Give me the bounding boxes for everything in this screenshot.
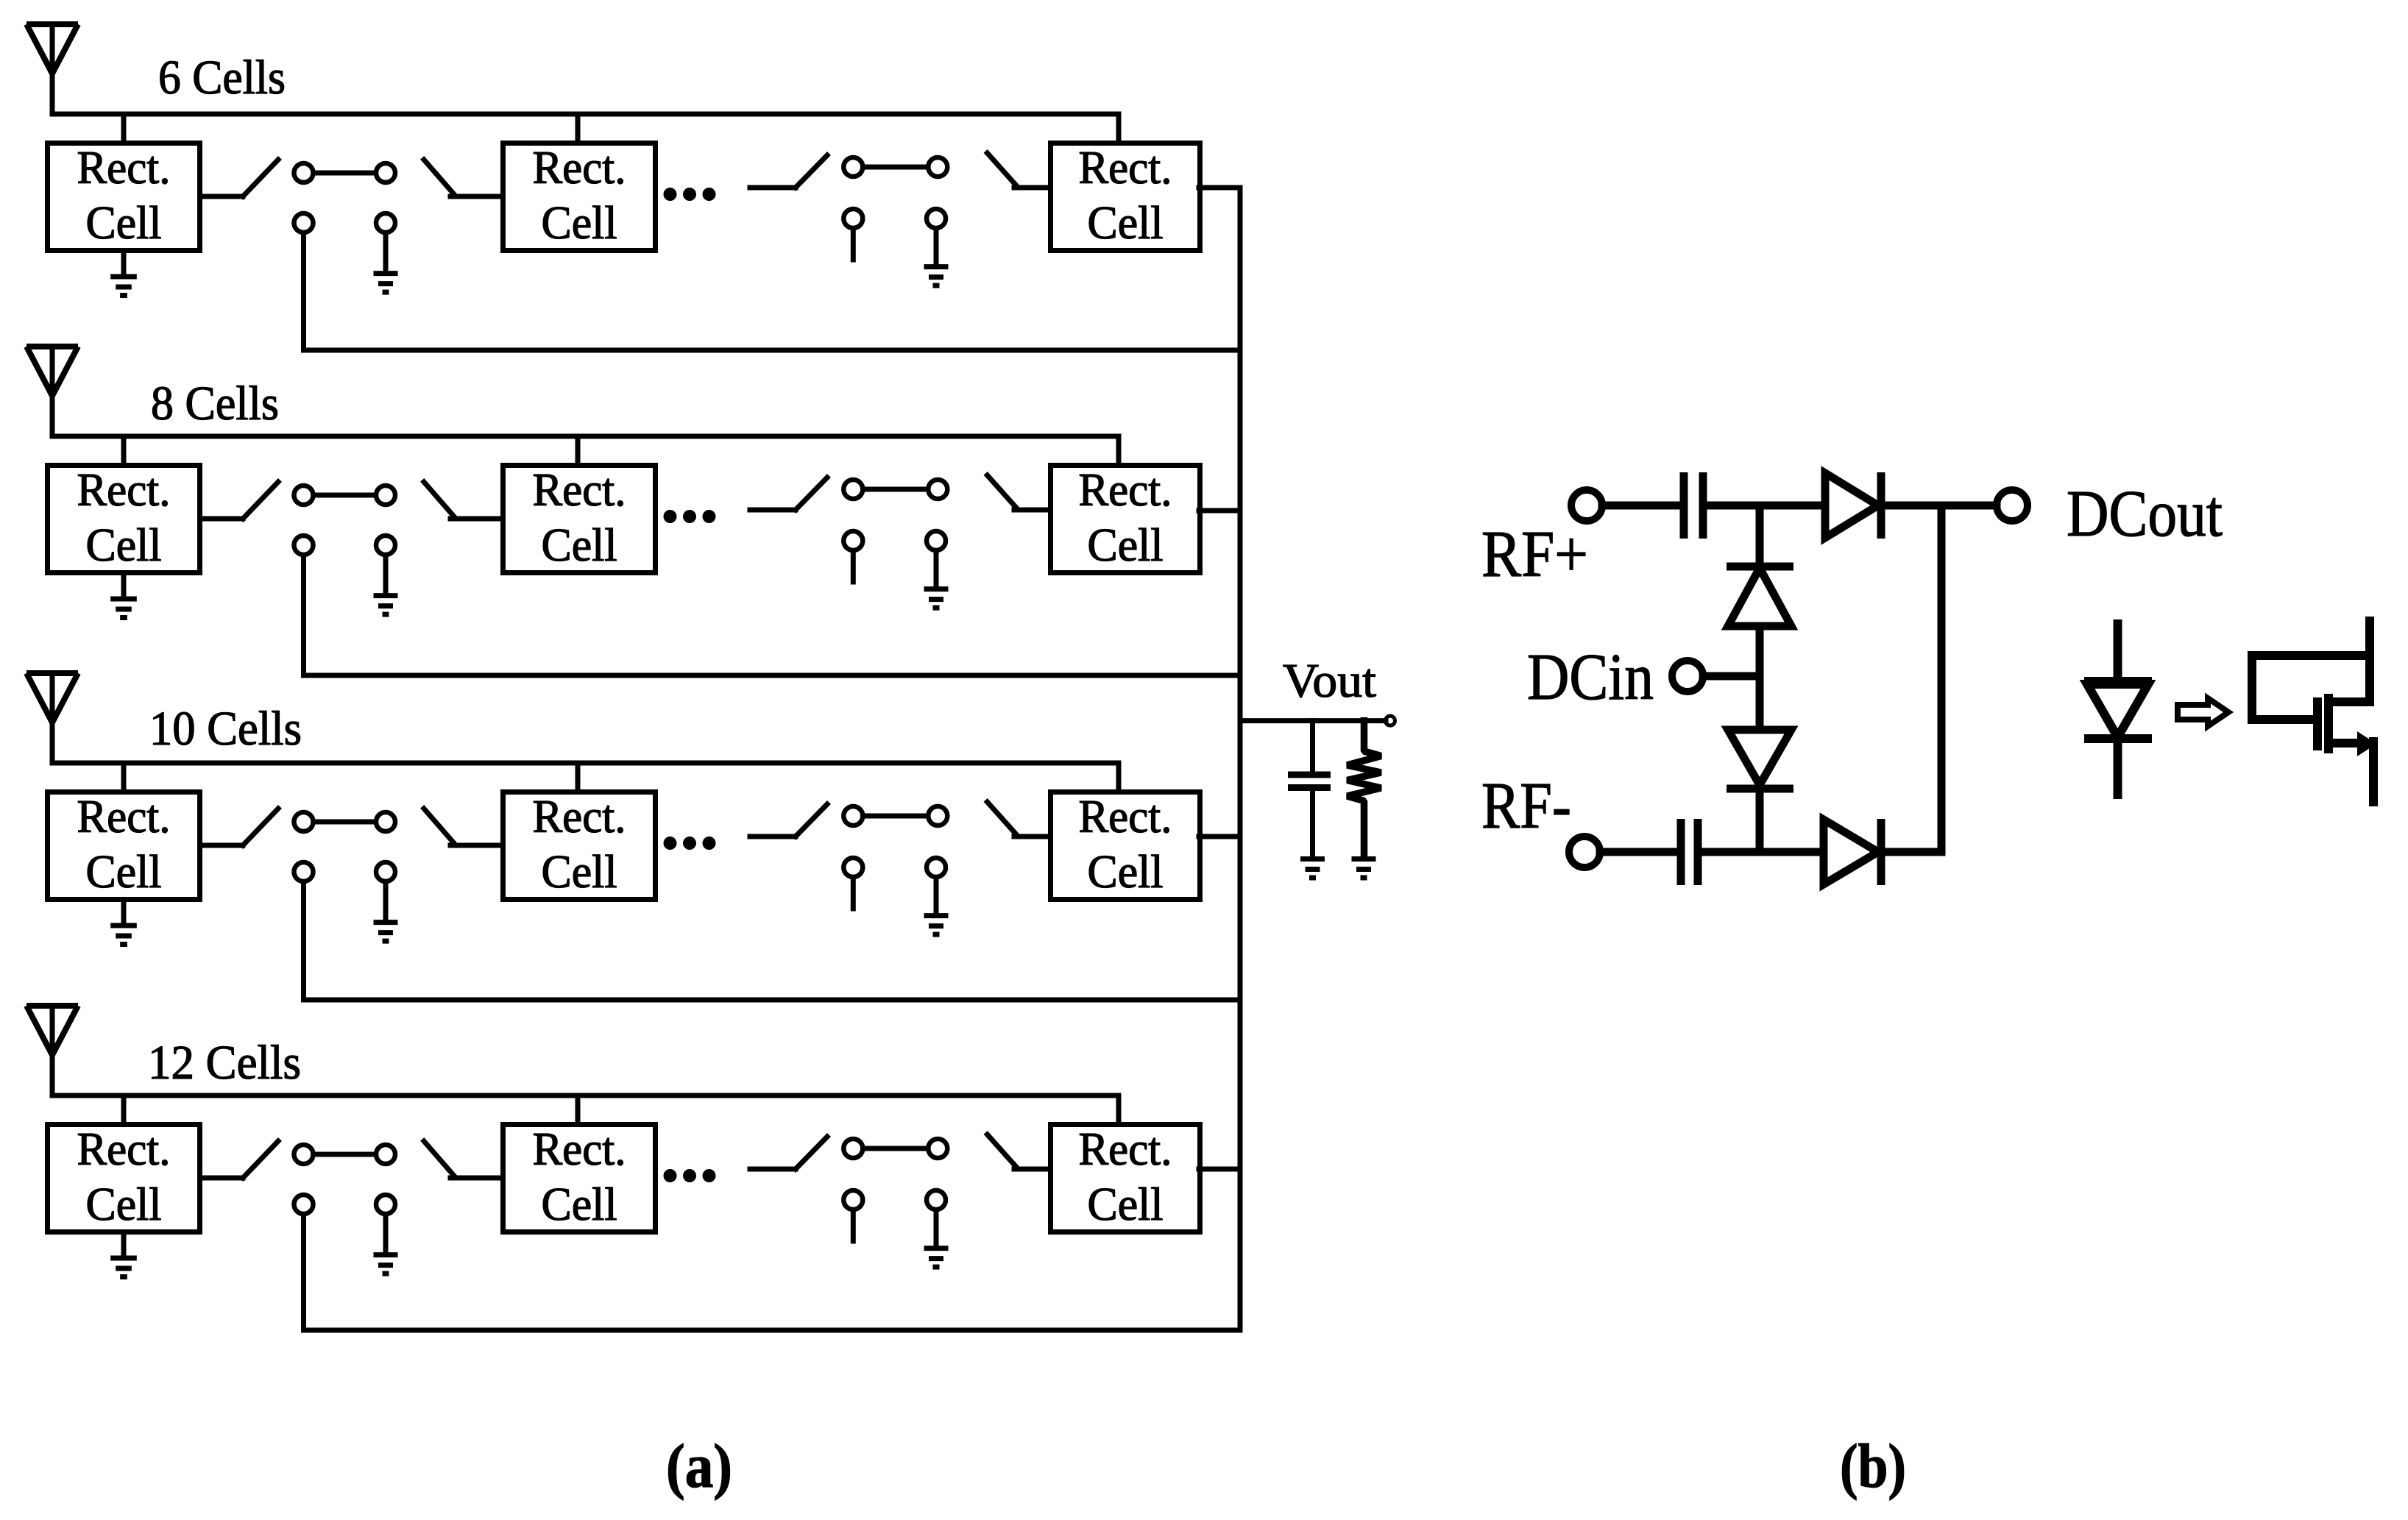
svg-text:Rect.: Rect. (1079, 464, 1172, 516)
switch S31 lever B (424, 809, 453, 842)
wire: C3 to D4 (1698, 848, 1824, 856)
rectifier cell U12 (503, 142, 656, 251)
svg-text:Rect.: Rect. (533, 464, 626, 516)
wire: into S22 (750, 508, 796, 513)
svg-text:Rect.: Rect. (77, 1123, 171, 1175)
svg-text:DCout: DCout (2067, 477, 2223, 550)
antenna AN4 (26, 1006, 78, 1055)
wire: into U42 (450, 1176, 500, 1181)
switch S31 lever A (243, 809, 278, 845)
ground under S41 (374, 1216, 398, 1274)
wire: parallel return row 1 (304, 235, 1241, 350)
rectifier cell U22 (503, 464, 656, 573)
switch S11 lever A (243, 160, 278, 196)
rectifier cell U21 (48, 464, 200, 573)
ground under S21 (374, 557, 398, 614)
rectifier cell U41 (48, 1123, 200, 1232)
svg-text:8 Cells: 8 Cells (151, 377, 279, 430)
svg-text:(a): (a) (666, 1432, 732, 1501)
wire: U41 output (202, 1176, 243, 1181)
terminal DCin (1672, 661, 1703, 692)
wire: stub into U33 (1116, 763, 1122, 789)
ground under S42 (924, 1212, 949, 1267)
wire: parallel return row 4 (304, 1216, 1241, 1330)
switch S12 contacts (843, 157, 947, 228)
equivalence arrow (2178, 698, 2228, 726)
switch S21 lever B (424, 482, 453, 516)
svg-text:Cell: Cell (1088, 197, 1164, 249)
svg-text:Cell: Cell (542, 846, 617, 898)
switch S21 contacts (294, 486, 396, 555)
svg-text:Rect.: Rect. (77, 142, 171, 193)
capacitor C2 (1684, 472, 1703, 539)
antenna AN1 (26, 24, 78, 74)
switch S22 lever B (988, 475, 1017, 508)
svg-text:Cell: Cell (542, 197, 617, 249)
switch S32 open stub (851, 879, 856, 909)
wire: into S32 (750, 834, 796, 839)
svg-text:Cell: Cell (86, 519, 162, 571)
ground under U11 (110, 253, 137, 296)
wire: into U43 (1014, 1167, 1048, 1172)
wire: U21 output (202, 516, 243, 522)
rectifier cell U42 (503, 1123, 656, 1232)
ground under C1 (1300, 859, 1325, 878)
wire: node A down to D2 (1756, 505, 1764, 567)
wire: into U23 (1014, 508, 1048, 513)
wire: into U22 (450, 516, 500, 522)
wire: stub into U32 (576, 763, 581, 789)
switch S42 open stub (851, 1212, 856, 1241)
svg-text:Cell: Cell (542, 519, 617, 571)
wire: parallel return row 2 (304, 557, 1241, 675)
switch S22 contacts (843, 480, 947, 550)
svg-text:Rect.: Rect. (77, 464, 171, 516)
diode D4 (1824, 819, 1881, 885)
switch S32 lever A (796, 804, 827, 837)
antenna AN3 (26, 673, 78, 722)
ground under U21 (110, 575, 137, 618)
wire: stub into U21 (121, 436, 127, 463)
svg-text:12 Cells: 12 Cells (148, 1036, 301, 1090)
diode D3 (1727, 730, 1793, 789)
wire: RF+ to C2 (1602, 502, 1680, 510)
switch S32 lever B (988, 802, 1017, 835)
rectifier cell U33 (1051, 791, 1200, 900)
ground under R1 (1352, 859, 1376, 878)
wire: antenna bus row 3 (52, 761, 1119, 766)
rectifier cell U32 (503, 791, 656, 900)
transistor M1 (diode-connected NMOS) (2252, 621, 2376, 802)
ellipsis: repeated cells (664, 837, 715, 850)
svg-text:(b): (b) (1840, 1432, 1906, 1501)
ground under S31 (374, 884, 398, 941)
svg-text:Rect.: Rect. (533, 1123, 626, 1175)
ground under S32 (924, 879, 949, 934)
switch S22 open stub (851, 553, 856, 582)
terminal Vout (1386, 716, 1395, 725)
switch S11 lever B (424, 160, 453, 193)
wire: into U12 (450, 194, 500, 199)
wire: stub into U31 (121, 763, 127, 789)
svg-text:Cell: Cell (86, 197, 162, 249)
switch S21 lever A (243, 482, 278, 519)
ground under S22 (924, 553, 949, 608)
wire: DCout junction vertical (1938, 505, 1946, 852)
svg-text:Cell: Cell (1088, 846, 1164, 898)
wire: stub into U41 (121, 1095, 127, 1122)
switch S42 contacts (843, 1139, 947, 1210)
switch S22 lever A (796, 477, 827, 510)
wire: main output bus (1238, 188, 1243, 1330)
resistor R1 (1348, 721, 1381, 856)
svg-text:Cell: Cell (542, 1179, 617, 1230)
wire: DCin to chain (1703, 672, 1760, 681)
wire: into S42 (750, 1167, 796, 1172)
wire: stub into U11 (121, 114, 127, 141)
wire: stub into U23 (1116, 436, 1122, 463)
wire: Vout node (1240, 718, 1386, 723)
capacitor C1 (1288, 721, 1331, 856)
wire: C2 to node A (1703, 502, 1825, 510)
wire: U33 output to bus (1199, 834, 1240, 839)
switch S42 lever A (796, 1137, 827, 1169)
switch S12 open stub (851, 230, 856, 260)
switch S42 lever B (988, 1134, 1017, 1168)
wire: stub into U42 (576, 1095, 581, 1122)
wire: U43 output to bus (1199, 1167, 1240, 1172)
switch S32 contacts (843, 806, 947, 877)
switch S12 lever B (988, 153, 1017, 186)
svg-text:Rect.: Rect. (1079, 142, 1172, 193)
rectifier cell U23 (1051, 464, 1200, 573)
wire: stub into U12 (576, 114, 581, 141)
switch S41 lever A (243, 1141, 278, 1178)
svg-text:Rect.: Rect. (1079, 1123, 1172, 1175)
diode D2 (1727, 567, 1793, 626)
svg-text:10 Cells: 10 Cells (149, 702, 302, 756)
svg-text:6 Cells: 6 Cells (158, 51, 286, 104)
rectifier cell U43 (1051, 1123, 1200, 1232)
wire: D2 to D3 (1756, 626, 1764, 730)
switch S41 contacts (294, 1145, 396, 1214)
capacitor C3 (1681, 819, 1698, 885)
switch S31 contacts (294, 812, 396, 881)
svg-text:Cell: Cell (1088, 1179, 1164, 1230)
svg-text:Rect.: Rect. (533, 142, 626, 193)
svg-text:Cell: Cell (86, 846, 162, 898)
antenna AN2 (26, 347, 78, 396)
rectifier cell U31 (48, 791, 200, 900)
wire: U23 output to bus (1199, 508, 1240, 514)
switch S11 contacts (294, 163, 396, 232)
wire: into U33 (1014, 834, 1048, 839)
wire: antenna bus row 4 (52, 1093, 1119, 1098)
ellipsis: repeated cells (664, 1170, 715, 1182)
ellipsis: repeated cells (664, 511, 715, 523)
diode D1 (1825, 472, 1881, 539)
wire: stub into U13 (1116, 114, 1122, 141)
wire: D3 to bottom rail (1756, 789, 1764, 852)
svg-text:RF+: RF+ (1481, 518, 1588, 591)
wire: into S12 (750, 185, 796, 191)
switch S41 lever B (424, 1141, 453, 1175)
wire: parallel return row 3 (304, 884, 1241, 1000)
svg-text:RF-: RF- (1481, 770, 1571, 842)
wire: U11 output (202, 194, 243, 199)
ground under U41 (110, 1235, 137, 1277)
wire: stub into U43 (1116, 1095, 1122, 1122)
wire: RF- to C3 (1600, 848, 1677, 856)
wire: U13 output to bus (1199, 185, 1240, 191)
switch S12 lever A (796, 155, 827, 188)
wire: into U32 (450, 843, 500, 848)
wire: into U13 (1014, 185, 1048, 191)
svg-text:Rect.: Rect. (77, 791, 171, 842)
svg-text:Rect.: Rect. (533, 791, 626, 842)
svg-text:Cell: Cell (86, 1179, 162, 1230)
svg-text:Cell: Cell (1088, 519, 1164, 571)
svg-text:Vout: Vout (1283, 654, 1376, 708)
ground under S11 (374, 235, 398, 292)
wire: D4 to output node (1878, 848, 1941, 856)
wire: D1 to DCout (1878, 502, 1997, 510)
terminal RF+ (1571, 490, 1602, 521)
rectifier cell U11 (48, 142, 200, 251)
wire: U31 output (202, 843, 243, 848)
terminal DCout (1997, 490, 2028, 521)
wire: stub into U22 (576, 436, 581, 463)
svg-text:DCin: DCin (1527, 641, 1654, 714)
svg-text:Rect.: Rect. (1079, 791, 1172, 842)
ground under S12 (924, 230, 949, 285)
ground under U31 (110, 902, 137, 945)
wire: antenna bus row 1 (52, 112, 1119, 117)
rectifier cell U13 (1051, 142, 1200, 251)
wire: antenna bus row 2 (52, 434, 1119, 439)
terminal RF- (1569, 837, 1600, 867)
diode symbol (legend) (2084, 624, 2152, 795)
ellipsis: repeated cells (664, 188, 715, 201)
